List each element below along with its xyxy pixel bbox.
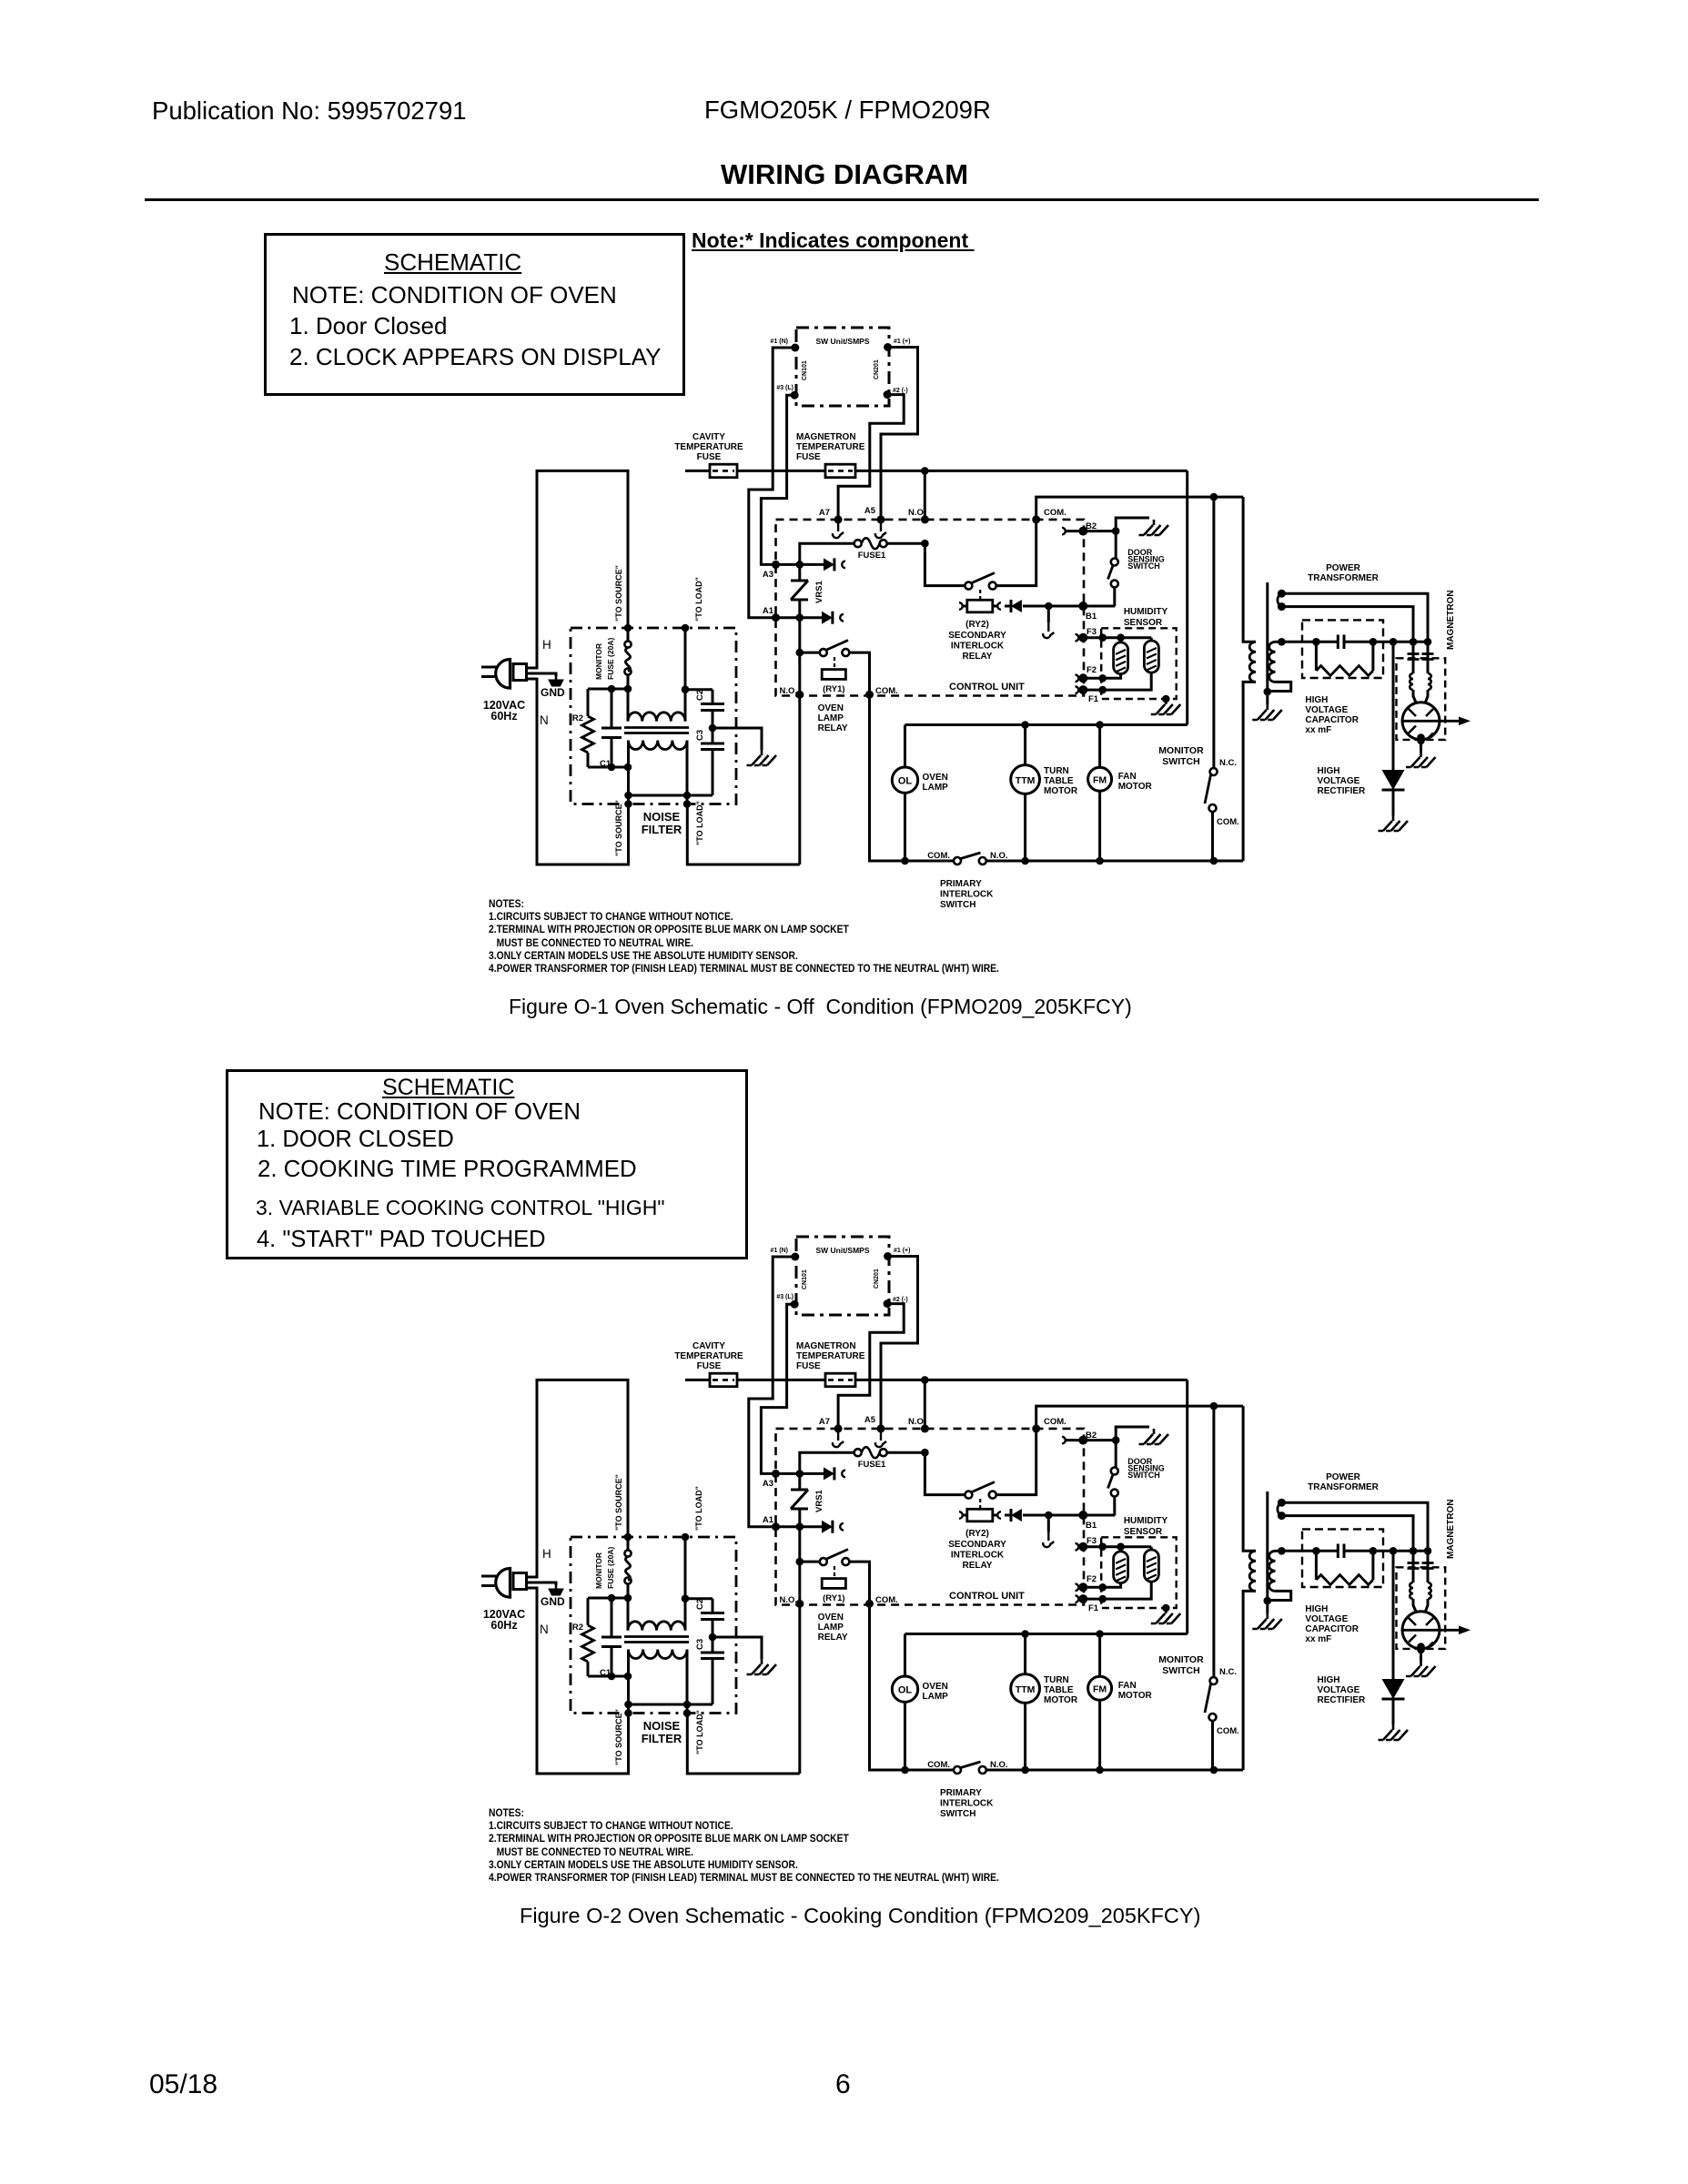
connector hook A3 diode	[842, 561, 845, 569]
svg-text:SECONDARY: SECONDARY	[948, 1540, 1006, 1550]
svg-text:TTM: TTM	[1016, 1684, 1036, 1695]
label monitor switch	[1158, 1654, 1239, 1736]
terminal COM. (RY1)	[865, 1600, 874, 1608]
terminal COM. (secondary interlock)	[1032, 508, 1066, 523]
switch monitor switch	[1205, 497, 1218, 861]
wire N rail right segment	[901, 1766, 1243, 1774]
svg-text:TEMPERATURE: TEMPERATURE	[796, 1351, 865, 1361]
svg-text:CN201: CN201	[874, 359, 880, 379]
svg-text:F2: F2	[1087, 665, 1097, 675]
node magnetron cathode	[1417, 1643, 1425, 1653]
svg-text:MOTOR: MOTOR	[1118, 782, 1153, 792]
svg-text:MONITOR: MONITOR	[1158, 745, 1204, 756]
wire chokes to magnetron	[1413, 690, 1428, 703]
wire #1(N) to A1	[749, 348, 795, 618]
filament choke L2	[1428, 1582, 1431, 1599]
transformer T1 primary coil	[1249, 1551, 1256, 1591]
svg-text:COM.: COM.	[875, 1595, 898, 1605]
svg-text:H: H	[542, 1547, 551, 1561]
wire filament lead 2	[1281, 1516, 1413, 1552]
fuse magnetron temperature fuse	[825, 1373, 855, 1387]
svg-text:FAN: FAN	[1118, 1681, 1137, 1691]
svg-text:#1 (+): #1 (+)	[894, 1248, 910, 1254]
node monitor switch top	[1210, 1402, 1218, 1410]
ground transformer	[1252, 692, 1282, 720]
connector hook F2	[1076, 1584, 1079, 1592]
SW Unit/SMPS box U-SW	[796, 1237, 889, 1315]
svg-text:TURN: TURN	[1044, 1675, 1069, 1685]
wire A3 row	[776, 561, 824, 569]
svg-text:TABLE: TABLE	[1044, 776, 1074, 786]
control unit box	[776, 1429, 1085, 1605]
svg-text:#1 (N): #1 (N)	[771, 339, 788, 345]
wire H to cavity fuse	[685, 470, 710, 472]
title rule	[145, 198, 1539, 201]
svg-text:RELAY: RELAY	[963, 1561, 993, 1571]
transformer T1 secondary coil	[1269, 642, 1276, 682]
ground magnetron	[1406, 741, 1436, 767]
node fuse line / N.O. riser	[921, 467, 929, 475]
svg-text:RELAY: RELAY	[963, 652, 993, 662]
svg-text:LAMP: LAMP	[818, 1623, 844, 1633]
svg-text:CAPACITOR: CAPACITOR	[1305, 715, 1359, 725]
wire A1 node down to N rail	[798, 618, 801, 864]
svg-text:N.C.: N.C.	[1219, 758, 1237, 768]
transformer T-NF top coil	[628, 1598, 685, 1631]
fuse FUSE1	[854, 538, 887, 561]
svg-text:#1 (N): #1 (N)	[771, 1248, 788, 1254]
label (RY1) oven lamp relay	[779, 1593, 897, 1643]
svg-text:A7: A7	[819, 1417, 830, 1427]
svg-text:HIGH: HIGH	[1305, 695, 1328, 705]
svg-text:F1: F1	[1088, 694, 1099, 704]
wire H to cavity fuse	[685, 1379, 710, 1381]
svg-text:N: N	[540, 1623, 549, 1636]
label MAGNETRON TEMPERATURE FUSE	[796, 1341, 865, 1371]
svg-text:"TO SOURCE": "TO SOURCE"	[614, 565, 623, 622]
transformer T1 secondary coil	[1269, 1551, 1276, 1591]
svg-text:C2: C2	[695, 1599, 705, 1610]
transformer T1 primary coil	[1249, 642, 1256, 682]
switch primary interlock	[954, 853, 986, 864]
relay coil RY2	[963, 1509, 997, 1522]
header publication number	[152, 96, 467, 126]
svg-text:LAMP: LAMP	[923, 783, 949, 793]
wire fuse line right	[855, 1379, 1188, 1381]
wire B2 row	[1066, 1436, 1119, 1444]
pin #3 (L)	[776, 385, 798, 399]
label MAGNETRON TEMPERATURE FUSE	[796, 432, 865, 462]
thermistor TH1	[1114, 1547, 1128, 1583]
connector hook B2	[1062, 528, 1066, 535]
label monitor switch	[1158, 745, 1239, 827]
terminal A3	[763, 561, 780, 580]
terminal N.O. (RY1)	[795, 1600, 804, 1608]
svg-text:COM.: COM.	[1044, 508, 1066, 518]
svg-text:H: H	[542, 638, 551, 652]
fuse cavity temperature fuse	[710, 464, 737, 478]
label HIGH VOLTAGE CAPACITOR xx mF	[1305, 695, 1359, 735]
svg-text:N.O.: N.O.	[779, 1595, 797, 1605]
motor FM fan motor	[1088, 1634, 1153, 1771]
wire COM riser to N rail right	[870, 694, 955, 861]
terminal F2	[1078, 665, 1097, 682]
connector hook RY2 right	[997, 1512, 1001, 1519]
svg-text:xx mF: xx mF	[1305, 725, 1331, 735]
terminal F3	[1078, 627, 1097, 642]
svg-text:A7: A7	[819, 508, 830, 518]
svg-text:B1: B1	[1086, 612, 1097, 622]
svg-text:MAGNETRON: MAGNETRON	[796, 1341, 856, 1351]
ground GND	[541, 1585, 565, 1608]
thermistor TH2	[1144, 638, 1158, 672]
label MONITOR FUSE (20A)	[594, 1547, 615, 1589]
svg-text:LAMP: LAMP	[923, 1692, 949, 1702]
terminal N.O. (secondary interlock)	[908, 508, 929, 523]
terminal A3	[763, 1470, 780, 1489]
pin #1 (N)	[771, 1248, 800, 1261]
svg-text:F1: F1	[1088, 1603, 1099, 1613]
switch door sensing switch	[1108, 531, 1118, 606]
wire #1(+) to A5	[881, 348, 918, 520]
svg-text:A5: A5	[864, 506, 876, 516]
svg-text:FUSE1: FUSE1	[858, 551, 886, 561]
wire #3(L) to A3	[761, 1304, 794, 1473]
svg-text:FM: FM	[1093, 775, 1107, 786]
svg-text:"TO LOAD": "TO LOAD"	[694, 1486, 703, 1531]
svg-text:OVEN: OVEN	[923, 1682, 948, 1692]
relay switch RY2 (secondary interlock)	[965, 1429, 1036, 1509]
svg-text:F2: F2	[1087, 1574, 1097, 1584]
filament choke L1	[1410, 1582, 1413, 1599]
diode D-A1	[822, 1521, 833, 1533]
filament choke L1	[1410, 673, 1413, 690]
lamp OL oven lamp	[892, 725, 948, 862]
connector hook F2	[1076, 674, 1079, 682]
svg-text:OVEN: OVEN	[818, 1613, 844, 1623]
svg-text:R2: R2	[572, 1623, 583, 1633]
svg-text:FM: FM	[1093, 1684, 1107, 1695]
svg-text:INTERLOCK: INTERLOCK	[951, 642, 1005, 652]
svg-text:B1: B1	[1086, 1521, 1097, 1531]
switch primary interlock	[954, 1762, 986, 1774]
svg-text:N: N	[540, 713, 549, 727]
svg-text:TEMPERATURE: TEMPERATURE	[674, 1351, 743, 1361]
wire fuse line riser to motor rail	[1186, 470, 1188, 724]
svg-text:MOTOR: MOTOR	[1118, 1691, 1153, 1701]
svg-text:SWITCH: SWITCH	[1162, 756, 1199, 767]
connector hook A7	[833, 1431, 844, 1447]
svg-text:60Hz: 60Hz	[490, 710, 517, 723]
wire COM riser to N rail right	[870, 1603, 955, 1770]
svg-text:C3: C3	[695, 1639, 705, 1650]
svg-text:MAGNETRON: MAGNETRON	[1446, 1499, 1456, 1559]
label primary interlock switch	[927, 1760, 1007, 1819]
connector hook F1	[1076, 686, 1079, 693]
svg-text:RELAY: RELAY	[818, 1633, 848, 1643]
AC plug 120VAC	[481, 660, 527, 723]
svg-text:N.O.: N.O.	[908, 1417, 926, 1427]
connector hook F3	[1076, 1543, 1079, 1551]
svg-text:A1: A1	[763, 1515, 774, 1525]
svg-text:60Hz: 60Hz	[490, 1619, 517, 1632]
wire filament lead 2	[1281, 607, 1413, 642]
terminal F1	[1078, 1594, 1099, 1613]
wire B1 row	[1023, 602, 1115, 611]
svg-text:A3: A3	[763, 570, 773, 580]
svg-text:SWITCH: SWITCH	[940, 900, 975, 910]
transformer T-NF bottom coil	[629, 1650, 688, 1714]
schematic O-1 (off condition)	[481, 328, 1471, 910]
svg-text:POWER: POWER	[1326, 1472, 1361, 1482]
schematic O-2 (cooking condition)	[481, 1237, 1471, 1819]
label HIGH VOLTAGE RECTIFIER	[1318, 1675, 1367, 1705]
wire TO LOAD riser inside filter	[682, 628, 690, 693]
node humidity ground	[1162, 1604, 1170, 1613]
pin #2 (-)	[884, 388, 908, 399]
svg-text:R2: R2	[572, 713, 583, 723]
svg-text:A5: A5	[864, 1415, 876, 1425]
switch door sensing switch	[1108, 1441, 1118, 1515]
wire N.O. to RY2 switch	[925, 1452, 965, 1494]
capacitor C2	[685, 690, 724, 728]
terminal F1	[1078, 685, 1099, 704]
svg-text:TABLE: TABLE	[1044, 1685, 1074, 1695]
svg-text:RELAY: RELAY	[818, 723, 848, 733]
varistor VRS1	[791, 1473, 824, 1526]
wire secondary bottom to core	[1268, 1591, 1291, 1600]
node core ground	[1264, 1597, 1272, 1605]
terminal A7	[819, 1417, 843, 1432]
svg-text:TEMPERATURE: TEMPERATURE	[796, 442, 865, 452]
capacitor C-HV high voltage capacitor	[1338, 1544, 1344, 1559]
fuse FUSE1	[854, 1447, 887, 1470]
svg-text:COM.: COM.	[927, 1760, 950, 1770]
label humidity sensor	[1124, 607, 1168, 628]
wire to filter ground	[713, 728, 762, 750]
high voltage capacitor box	[1302, 1529, 1383, 1587]
wire B2 to ground	[1116, 518, 1149, 531]
diode D-A3	[824, 1467, 834, 1480]
connector hook below B1 row	[1043, 1515, 1054, 1547]
wire secondary top to HV line	[1276, 641, 1282, 643]
svg-text:CONTROL UNIT: CONTROL UNIT	[949, 1591, 1025, 1602]
node R2/C1 top row	[588, 685, 632, 693]
transformer T-NF core	[624, 1637, 689, 1643]
terminal COM. (RY1)	[865, 691, 874, 699]
wire HV line	[1278, 1547, 1431, 1555]
wire N.O. riser to fuse line	[924, 1380, 926, 1429]
svg-text:OVEN: OVEN	[818, 703, 844, 713]
node C2/C3 junction	[709, 1633, 717, 1642]
humidity sensor box	[1101, 628, 1177, 699]
control unit box	[776, 520, 1085, 696]
svg-text:CAVITY: CAVITY	[692, 432, 725, 442]
svg-text:HUMIDITY: HUMIDITY	[1124, 1516, 1168, 1526]
node TO SOURCE (bottom)	[614, 1709, 632, 1765]
magnetron V1	[1402, 1612, 1471, 1650]
monitor fuse (20A)	[624, 641, 631, 674]
terminal A7	[819, 508, 843, 523]
wire fuse line mid	[737, 470, 825, 472]
pin #2 (-)	[884, 1297, 908, 1308]
node R2/C1 bottom row	[588, 763, 632, 772]
resistor R2	[572, 1598, 594, 1676]
notes text 2	[489, 1806, 999, 1884]
svg-text:LAMP: LAMP	[818, 713, 844, 723]
svg-text:MONITOR: MONITOR	[1158, 1654, 1204, 1665]
svg-text:TTM: TTM	[1016, 775, 1036, 786]
wire F3 row	[1078, 1542, 1151, 1551]
label HIGH VOLTAGE RECTIFIER	[1318, 766, 1367, 796]
lamp OL oven lamp	[892, 1634, 948, 1771]
connector hook RY2 right	[997, 602, 1001, 610]
node core ground	[1264, 688, 1272, 696]
svg-text:VOLTAGE: VOLTAGE	[1305, 1614, 1348, 1624]
wire motor supply rail	[905, 721, 1188, 729]
ground noise filter	[747, 1659, 777, 1674]
schematic condition box 2	[226, 1069, 748, 1259]
wire N (neutral)	[527, 1588, 629, 1774]
wire monitor fuse to node	[627, 1584, 630, 1598]
node monitor switch top	[1210, 493, 1218, 501]
svg-text:SWITCH: SWITCH	[940, 1809, 975, 1819]
feedthrough capacitor FC2	[1422, 642, 1434, 673]
fuse magnetron temperature fuse	[825, 464, 855, 478]
diode D-A3	[824, 558, 834, 571]
magnetron box	[1397, 658, 1446, 740]
wire H (hot)	[527, 1380, 628, 1577]
svg-text:#2 (-): #2 (-)	[893, 1297, 908, 1303]
svg-text:VRS1: VRS1	[814, 1489, 824, 1512]
node TO SOURCE (top)	[614, 565, 632, 632]
thermistor TH2	[1144, 1547, 1158, 1582]
svg-text:SWITCH: SWITCH	[1162, 1665, 1199, 1676]
svg-text:INTERLOCK: INTERLOCK	[940, 889, 994, 899]
terminal A5	[864, 1415, 885, 1432]
wire B2 to ground	[1116, 1427, 1149, 1441]
ground door switch	[1139, 1429, 1169, 1444]
wire chokes to magnetron	[1413, 1599, 1428, 1613]
humidity sensor box	[1101, 1537, 1177, 1608]
svg-text:MOTOR: MOTOR	[1044, 786, 1078, 796]
svg-text:HIGH: HIGH	[1318, 1675, 1340, 1685]
capacitor C2	[685, 1599, 724, 1637]
wire F2 row	[1078, 674, 1121, 682]
svg-text:(RY2): (RY2)	[965, 1529, 989, 1539]
svg-text:xx mF: xx mF	[1305, 1634, 1331, 1644]
wire F1 row	[1078, 1582, 1151, 1603]
wire B2 row	[1066, 527, 1119, 535]
node C2/C3 junction	[709, 724, 717, 733]
transformer T-NF core	[624, 728, 689, 733]
svg-text:#3 (L): #3 (L)	[776, 385, 793, 391]
svg-text:PRIMARY: PRIMARY	[940, 1788, 982, 1798]
note indicates component	[692, 228, 975, 253]
capacitor C1	[600, 689, 622, 769]
relay switch RY1 (oven lamp relay)	[796, 1550, 870, 1604]
feedthrough capacitor FC1	[1408, 642, 1420, 673]
connector hook A5	[875, 522, 886, 538]
svg-text:HIGH: HIGH	[1318, 766, 1340, 776]
feedthrough capacitor FC1	[1408, 1551, 1420, 1582]
connector hook F3	[1076, 634, 1079, 642]
transformer T1 filament winding	[1278, 1499, 1286, 1520]
label CAVITY TEMPERATURE FUSE	[674, 1341, 743, 1371]
wire fuse line riser to motor rail	[1186, 1380, 1188, 1633]
wire FUSE1 to N.O. riser	[887, 1449, 929, 1457]
relay switch RY1 (oven lamp relay)	[796, 641, 870, 695]
wire A1 row	[776, 1522, 823, 1531]
svg-text:HIGH: HIGH	[1305, 1604, 1328, 1614]
label (RY1) oven lamp relay	[779, 684, 897, 733]
svg-text:MAGNETRON: MAGNETRON	[796, 432, 856, 442]
rectifier D-HV high voltage rectifier	[1382, 642, 1405, 815]
label door sensing switch	[1127, 548, 1165, 571]
wire A1 row	[776, 613, 823, 622]
svg-text:FUSE: FUSE	[697, 452, 722, 462]
feedthrough capacitor FC2	[1422, 1551, 1434, 1582]
svg-text:"TO SOURCE": "TO SOURCE"	[614, 800, 623, 856]
wire primary feed	[1243, 1406, 1256, 1551]
high voltage capacitor box	[1302, 620, 1383, 678]
wire filament lead 1	[1281, 1502, 1428, 1551]
pin #3 (L)	[776, 1294, 798, 1309]
svg-text:HUMIDITY: HUMIDITY	[1124, 607, 1168, 617]
svg-text:N.O.: N.O.	[990, 851, 1008, 861]
svg-text:MONITOR: MONITOR	[594, 1552, 603, 1589]
resistor R2	[572, 689, 594, 767]
wire GND stub	[527, 673, 556, 676]
svg-text:SWITCH: SWITCH	[1127, 1471, 1160, 1480]
wire F2 row	[1078, 1583, 1121, 1592]
ground humidity sensor	[1151, 1608, 1181, 1623]
svg-text:"TO LOAD": "TO LOAD"	[695, 1710, 704, 1754]
svg-text:SW Unit/SMPS: SW Unit/SMPS	[815, 1246, 869, 1255]
ground HV rectifier	[1379, 815, 1409, 831]
label humidity sensor	[1124, 1516, 1168, 1537]
svg-text:N.O.: N.O.	[908, 508, 926, 518]
resistor R-HV bleed	[1316, 1551, 1373, 1584]
wire #2(-) to A7	[838, 1304, 904, 1429]
connector hook A1 diode	[840, 1523, 844, 1531]
wire #2(-) to A7	[838, 395, 904, 520]
fuse cavity temperature fuse	[710, 1373, 737, 1387]
svg-text:FILTER: FILTER	[642, 823, 682, 836]
transformer T-NF top coil	[628, 689, 685, 722]
svg-text:COM.: COM.	[1217, 817, 1239, 827]
wire primary return to N rail	[1243, 1591, 1256, 1770]
thermistor TH1	[1114, 638, 1128, 674]
svg-text:OL: OL	[898, 776, 913, 787]
svg-text:F3: F3	[1087, 1536, 1097, 1546]
svg-text:(RY1): (RY1)	[823, 1593, 844, 1603]
terminal A5	[864, 506, 885, 523]
node fuse line / N.O. riser	[921, 1376, 929, 1384]
pin #1 (+)	[884, 1248, 910, 1260]
ground transformer	[1252, 1601, 1282, 1629]
node magnetron cathode	[1417, 733, 1425, 744]
connector hook B2	[1062, 1437, 1066, 1444]
label POWER TRANSFORMER	[1308, 1472, 1380, 1492]
svg-text:NOISE: NOISE	[643, 1719, 681, 1733]
svg-text:TURN: TURN	[1044, 766, 1069, 776]
figure caption O-2	[520, 1904, 1200, 1928]
node bottom cap row	[624, 792, 713, 800]
ground magnetron	[1406, 1650, 1436, 1676]
ground GND	[541, 676, 565, 699]
pin #1 (N)	[771, 339, 800, 352]
